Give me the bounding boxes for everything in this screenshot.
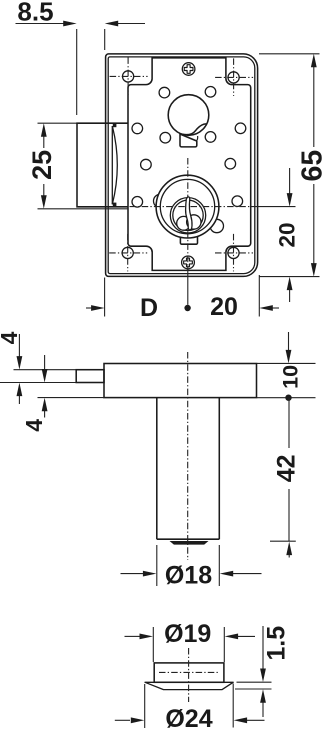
bolt outline <box>77 123 128 207</box>
small hole 1 <box>159 87 170 98</box>
spring pin top <box>113 124 117 128</box>
cylinder housing rectangle <box>104 364 257 398</box>
nose bottom extension line <box>0 382 76 384</box>
dim D-20 right arrow <box>272 307 279 309</box>
cam hole circle <box>168 95 209 136</box>
barrel bottom edge <box>157 538 220 540</box>
flange left extension line <box>144 684 146 728</box>
svg-text:D: D <box>140 294 158 322</box>
dim 20 vertical line <box>289 168 291 194</box>
small hole 6 <box>205 132 216 143</box>
cylinder cam nose rectangle <box>76 370 104 383</box>
vertical line from screw to dot <box>187 267 189 305</box>
mounting hole 1 with centerlines <box>110 57 148 95</box>
svg-text:4: 4 <box>0 331 22 344</box>
flange bottom extension line <box>235 688 272 690</box>
small hole 10 <box>232 196 243 207</box>
dim 10 line <box>288 332 290 351</box>
housing top right extension line <box>257 362 316 364</box>
bottom view vertical centerline <box>188 648 190 702</box>
cam tab outline <box>180 133 197 147</box>
collar right extension line <box>223 627 225 662</box>
lock case inner wall line <box>108 57 255 274</box>
small hole 8 <box>225 158 236 169</box>
dim O24 left <box>115 719 130 721</box>
cylinder plug inner circle <box>173 200 203 230</box>
dim 20 vertical extension line <box>251 206 296 208</box>
keyway left lobe <box>177 216 191 230</box>
barrel left extension line <box>156 545 158 586</box>
cover plate outline with notched corners <box>128 58 251 271</box>
svg-text:42: 42 <box>273 454 301 482</box>
small hole 7 <box>141 159 152 170</box>
bolt top edge extension line <box>38 122 78 124</box>
svg-text:4: 4 <box>21 419 47 432</box>
dim node dot <box>184 305 190 311</box>
bolt spring arc <box>112 126 117 204</box>
bottom view horizontal centerline <box>159 671 219 673</box>
dim 8.5 right extension line <box>104 29 106 50</box>
svg-text:1.5: 1.5 <box>263 626 291 661</box>
cylinder tab outline <box>180 236 197 244</box>
vertical centerline through cylinder and screw <box>187 158 189 267</box>
dim D-20 left extension line <box>104 278 106 317</box>
dim O24 right <box>247 719 265 721</box>
bottom screw head <box>182 256 195 269</box>
collar left extension line <box>152 627 154 662</box>
barrel right side <box>218 398 220 540</box>
cylinder outer face circle <box>156 175 219 238</box>
side view vertical centerline <box>187 352 189 560</box>
dim O18 right <box>233 573 262 575</box>
cylinder plug outer circle <box>170 198 205 233</box>
svg-text:10: 10 <box>279 365 303 389</box>
svg-text:8.5: 8.5 <box>17 0 53 27</box>
mounting hole 4 with centerlines <box>215 234 253 272</box>
dim 4 upper line <box>18 334 20 357</box>
svg-text:Ø18: Ø18 <box>165 561 212 589</box>
small hole 2 <box>205 87 216 98</box>
dim D-20 left arrow <box>86 307 92 309</box>
dim O19 right <box>238 635 255 637</box>
svg-text:20: 20 <box>210 293 238 321</box>
small hole 9 <box>132 197 143 208</box>
small hole 3 <box>132 123 143 134</box>
dim 65 top extension line <box>259 53 320 55</box>
dim 42 line <box>288 398 290 448</box>
flange profile <box>145 682 233 689</box>
barrel left side <box>156 398 158 540</box>
flange right extension line <box>232 684 234 728</box>
dim 1.5 line <box>262 626 264 669</box>
nose top extension line <box>14 369 77 371</box>
top screw head <box>182 63 195 76</box>
cam flap fold diagonal <box>180 134 197 141</box>
small hole 5 <box>160 132 171 143</box>
lock case outer outline <box>106 54 258 277</box>
dim 10 dot <box>285 395 291 401</box>
dim 4 lower line <box>44 355 46 370</box>
dim 65 bottom extension line <box>259 276 320 278</box>
svg-text:Ø19: Ø19 <box>164 620 211 648</box>
housing bottom right extension line <box>257 397 316 399</box>
dim O18 left <box>121 573 144 575</box>
dim 8.5 line right <box>117 23 145 25</box>
cylinder left ear lug <box>154 194 167 207</box>
bolt spring chord line <box>111 126 113 204</box>
svg-text:25: 25 <box>27 150 57 180</box>
dim 8.5 left extension line <box>76 29 78 115</box>
collar rectangle <box>154 663 224 682</box>
small hole 4 <box>235 123 246 134</box>
dim 65 line <box>313 66 315 147</box>
svg-text:65: 65 <box>296 150 325 182</box>
housing bottom left extension line <box>38 397 105 399</box>
mounting hole 2 with centerlines <box>215 58 253 96</box>
dim O19 left <box>125 635 141 637</box>
dim 8.5 line left <box>16 23 65 25</box>
keyway stem profile <box>186 197 192 230</box>
barrel right extension line <box>218 545 220 586</box>
dim 25 line <box>43 136 45 149</box>
svg-text:Ø24: Ø24 <box>165 705 212 730</box>
spring pin bottom <box>113 203 117 207</box>
cam flap top curve <box>180 124 207 135</box>
dim D-20 right extension line <box>258 275 260 317</box>
bolt slot line and dim 25 extension <box>38 208 128 210</box>
flange top extension line <box>237 681 272 683</box>
cylinder right ear lug <box>210 219 223 232</box>
keyway right lobe <box>187 215 201 229</box>
barrel end cap band <box>170 541 209 545</box>
svg-text:20: 20 <box>275 222 300 247</box>
cam flap tip hook <box>196 136 197 141</box>
cylinder ring circle <box>160 179 214 233</box>
barrel bottom extension line <box>270 540 296 542</box>
mounting hole 3 with centerlines <box>109 234 147 272</box>
horizontal centerline through cylinder <box>130 206 252 208</box>
